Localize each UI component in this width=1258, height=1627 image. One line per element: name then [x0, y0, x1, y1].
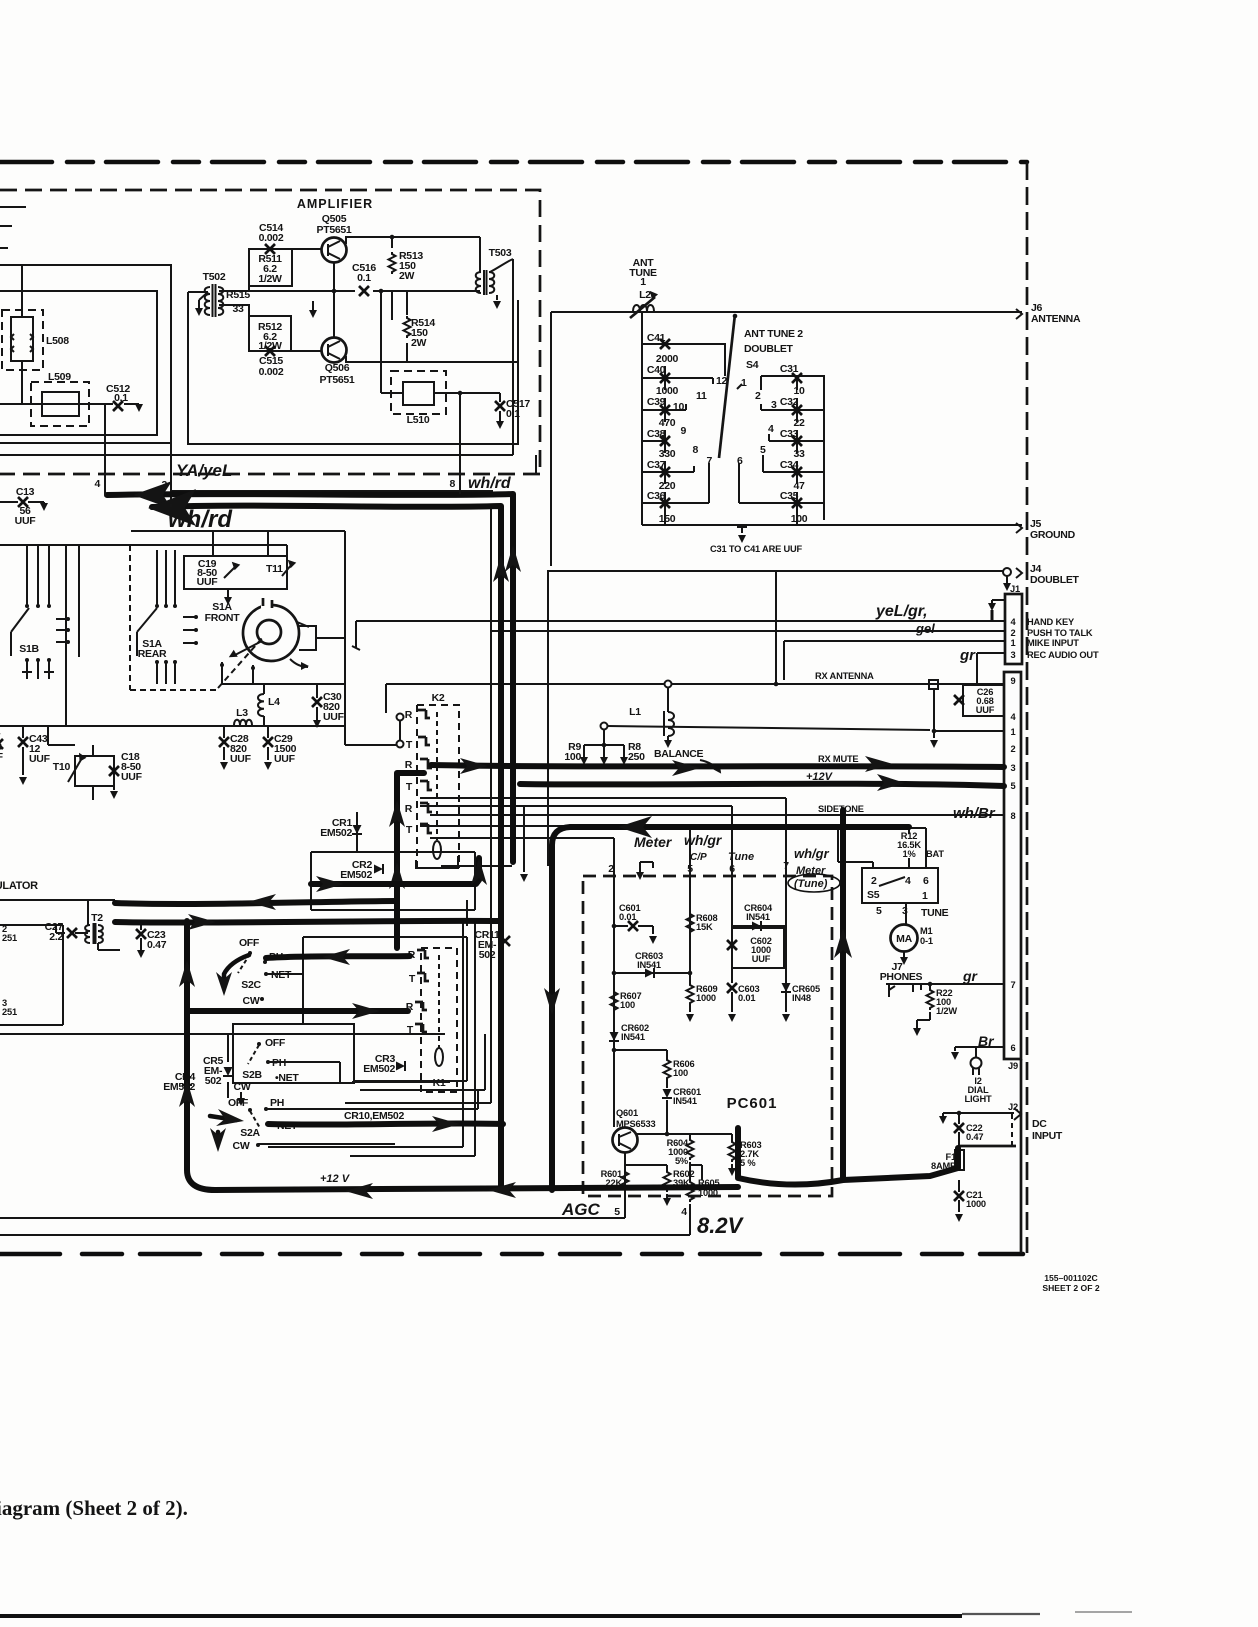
- svg-text:wh/rd: wh/rd: [468, 475, 512, 492]
- svg-text:502: 502: [479, 949, 496, 961]
- svg-text:L510: L510: [407, 414, 430, 426]
- wire L509 line: [0, 403, 139, 405]
- svg-text:T: T: [406, 781, 413, 793]
- svg-text:8: 8: [449, 478, 455, 490]
- mid arrow: [312, 301, 314, 312]
- K2 to L1 wire: [386, 683, 664, 685]
- svg-text:7: 7: [706, 455, 712, 467]
- resistor R604: [687, 1138, 694, 1160]
- svg-text:S4: S4: [746, 359, 759, 371]
- ground arrow T502: [199, 292, 208, 300]
- resistor R514: [406, 291, 408, 362]
- svg-text:1/2W: 1/2W: [258, 273, 282, 285]
- svg-text:S2C: S2C: [241, 979, 261, 991]
- thick arm hook S2A: [210, 1116, 236, 1120]
- svg-text:T: T: [406, 824, 413, 836]
- lamp I2: [971, 1058, 982, 1069]
- inductor L2: [633, 305, 654, 311]
- pin4 pin3 to thick: [105, 493, 171, 507]
- svg-text:AMPLIFIER: AMPLIFIER: [297, 197, 373, 211]
- capacitor C28: [223, 726, 225, 738]
- svg-text:C32: C32: [780, 396, 799, 408]
- svg-text:4: 4: [768, 423, 774, 435]
- svg-text:Tune: Tune: [728, 851, 754, 863]
- svg-text:CW: CW: [233, 1140, 250, 1152]
- svg-text:6: 6: [923, 875, 929, 887]
- base rail: [333, 262, 335, 338]
- wire y900: [0, 899, 115, 901]
- svg-text:5 %: 5 %: [740, 1158, 756, 1168]
- thick arrows up on verticals: [505, 545, 521, 572]
- svg-text:SHEET 2 OF 2: SHEET 2 OF 2: [1042, 1283, 1100, 1293]
- AGC wire: [0, 1217, 625, 1219]
- wire 8 down to thick: [459, 490, 461, 494]
- ground arrow bank: [737, 525, 747, 533]
- resistor R608: [689, 876, 691, 983]
- svg-text:CR10,EM502: CR10,EM502: [344, 1110, 404, 1122]
- mid rail with C516: [219, 290, 480, 292]
- svg-text:2: 2: [871, 875, 877, 887]
- svg-text:S2B: S2B: [242, 1069, 262, 1081]
- svg-text:TUNE: TUNE: [921, 907, 949, 919]
- svg-text:1/2W: 1/2W: [936, 1006, 957, 1016]
- balance network: [601, 723, 608, 730]
- svg-text:2: 2: [1011, 628, 1016, 638]
- svg-text:Q601: Q601: [616, 1108, 638, 1118]
- amplifier solid box: [188, 292, 518, 444]
- wire j4 drop: [775, 571, 777, 684]
- svg-text:C31: C31: [780, 363, 799, 375]
- svg-text:0.47: 0.47: [147, 939, 167, 951]
- capacitor C30: [316, 684, 318, 698]
- thick T2 wires: [115, 901, 396, 904]
- svg-text:0.01: 0.01: [619, 912, 636, 922]
- long vertical x548: [547, 571, 549, 866]
- solid box around K1: [352, 900, 467, 1082]
- capacitor C603: [727, 983, 737, 993]
- svg-text:502: 502: [205, 1075, 222, 1087]
- svg-text:2W: 2W: [399, 270, 415, 282]
- inductor L508: [2, 310, 43, 370]
- connector J4: [547, 568, 1022, 578]
- svg-text:L1: L1: [629, 706, 641, 718]
- svg-text:iagram (Sheet 2 of 2).: iagram (Sheet 2 of 2).: [0, 1496, 188, 1520]
- lower contacts under rotary: [222, 662, 253, 684]
- page bottom rule: [0, 1614, 962, 1618]
- svg-text:R: R: [405, 759, 413, 771]
- emitter rail: [346, 356, 518, 362]
- svg-text:4: 4: [94, 478, 100, 490]
- switch S5 box: [862, 868, 938, 903]
- wire y1034: [0, 1033, 445, 1035]
- svg-text:OFF: OFF: [228, 1097, 249, 1109]
- svg-text:150: 150: [659, 513, 676, 525]
- wire bottom: [0, 454, 513, 456]
- svg-text:C13: C13: [16, 486, 35, 498]
- svg-text:MIKE INPUT: MIKE INPUT: [1027, 638, 1079, 648]
- phone jack J7: [886, 984, 930, 997]
- K2 coil bracket: [416, 856, 458, 868]
- svg-text:3: 3: [1011, 650, 1016, 660]
- svg-text:8: 8: [1011, 811, 1016, 821]
- svg-text:UUF: UUF: [230, 753, 252, 765]
- switch S1A REAR: [130, 545, 216, 690]
- svg-text:0.1: 0.1: [506, 408, 520, 420]
- capacitor bank right C31-C35: [761, 376, 824, 520]
- svg-text:0.002: 0.002: [259, 232, 284, 244]
- thick NET CR10 wire: [268, 1123, 503, 1124]
- capacitor C27: [67, 928, 77, 938]
- relay K1: [421, 948, 457, 1092]
- left edge fragments: [0, 207, 26, 248]
- svg-text:S2A: S2A: [240, 1127, 260, 1139]
- svg-text:PT5651: PT5651: [320, 374, 355, 386]
- capacitor C29: [267, 726, 269, 738]
- svg-text:AGC: AGC: [561, 1200, 601, 1219]
- svg-text:11: 11: [696, 390, 707, 402]
- svg-text:wh/gr: wh/gr: [684, 832, 723, 848]
- svg-text:(Tune): (Tune): [794, 878, 828, 890]
- resistor R22: [929, 984, 931, 988]
- svg-text:15K: 15K: [696, 922, 713, 932]
- svg-text:DC: DC: [1032, 1118, 1047, 1130]
- svg-text:UUF: UUF: [976, 705, 995, 715]
- svg-text:gr: gr: [959, 647, 976, 664]
- svg-text:UUF: UUF: [121, 771, 143, 783]
- svg-text:5: 5: [760, 444, 766, 456]
- thick wire wh/rd upper: [107, 494, 513, 862]
- wires T502 right: [219, 291, 249, 351]
- meter M1: [891, 925, 918, 952]
- capacitor C26 box: [963, 685, 1004, 716]
- svg-text:155–001102C: 155–001102C: [1044, 1273, 1098, 1283]
- svg-text:DOUBLET: DOUBLET: [1030, 574, 1080, 586]
- svg-text:0.1: 0.1: [357, 272, 371, 284]
- svg-text:5%: 5%: [675, 1156, 689, 1166]
- mike input wire: [784, 641, 1005, 680]
- wire top of S1 section: [0, 545, 287, 556]
- C19 T11 box: [184, 556, 287, 589]
- svg-text:1: 1: [741, 377, 747, 389]
- svg-text:YA/yeL: YA/yeL: [176, 461, 232, 480]
- svg-text:BALANCE: BALANCE: [654, 748, 704, 760]
- transistor Q506: [322, 338, 347, 363]
- nested corner wires bottom of K2 area: [268, 921, 463, 1147]
- svg-text:0.002: 0.002: [259, 366, 284, 378]
- 8.2V wire: [0, 1234, 690, 1236]
- connector J2 column: [1020, 1059, 1023, 1253]
- svg-text:S5: S5: [867, 889, 880, 901]
- thick +12v wire: [520, 784, 1004, 786]
- svg-text:PUSH TO TALK: PUSH TO TALK: [1027, 628, 1093, 638]
- svg-text:IN541: IN541: [637, 960, 661, 970]
- svg-text:Q506: Q506: [325, 362, 350, 374]
- push to talk wire: [491, 630, 1005, 632]
- svg-text:+12 V: +12 V: [320, 1173, 351, 1185]
- svg-text:OFF: OFF: [239, 937, 260, 949]
- svg-text:1000: 1000: [696, 993, 716, 1003]
- svg-text:T503: T503: [489, 247, 512, 259]
- svg-text:33: 33: [232, 303, 244, 315]
- svg-text:L508: L508: [46, 335, 69, 347]
- svg-text:RX ANTENNA: RX ANTENNA: [815, 671, 874, 681]
- svg-text:gr: gr: [962, 968, 979, 984]
- svg-text:IN541: IN541: [746, 912, 770, 922]
- svg-text:UUF: UUF: [274, 753, 296, 765]
- svg-text:3: 3: [771, 399, 777, 411]
- node pin3 wire: [170, 443, 172, 504]
- resistor R607: [611, 990, 618, 1012]
- svg-text:S1B: S1B: [19, 643, 39, 655]
- thick y1011 wire: [187, 1008, 408, 1014]
- svg-text:PT5651: PT5651: [317, 224, 352, 236]
- MAIN SCHEMATIC GROUP: [0, 162, 1027, 1254]
- antenna line with L2: [551, 311, 1022, 313]
- svg-text:T10: T10: [53, 761, 71, 773]
- svg-text:•NET: •NET: [275, 1072, 299, 1084]
- resistor R513: [389, 252, 396, 274]
- emitter wire: [624, 1153, 626, 1208]
- svg-text:Br: Br: [978, 1033, 995, 1049]
- svg-text:PH: PH: [270, 1097, 284, 1109]
- wire to J2: [959, 1145, 1016, 1148]
- thick arm hook S2C: [224, 955, 249, 984]
- svg-text:4: 4: [905, 875, 911, 887]
- resistor R602: [625, 1165, 667, 1170]
- svg-text:10: 10: [673, 401, 685, 413]
- svg-text:8.2V: 8.2V: [697, 1213, 745, 1238]
- svg-text:1: 1: [1011, 727, 1016, 737]
- svg-text:MA: MA: [896, 933, 912, 945]
- svg-text:1: 1: [640, 276, 646, 288]
- nested feed wires: [420, 797, 786, 799]
- wire with down arrow x524: [523, 806, 525, 872]
- svg-text:EM502: EM502: [363, 1063, 395, 1075]
- collector top rail: [346, 237, 480, 248]
- svg-text:wh/rd: wh/rd: [168, 506, 233, 533]
- K2 coil: [433, 841, 441, 859]
- svg-text:T: T: [407, 1024, 414, 1036]
- svg-text:ANT TUNE 2: ANT TUNE 2: [744, 328, 803, 340]
- svg-text:UUF: UUF: [752, 954, 771, 964]
- svg-text:M1: M1: [920, 926, 933, 936]
- svg-text:L4: L4: [268, 696, 280, 708]
- capacitor C602 box: [732, 928, 784, 968]
- svg-text:HAND KEY: HAND KEY: [1027, 617, 1075, 627]
- capacitor C21: [958, 1180, 960, 1192]
- switch S2B box: [233, 1024, 354, 1083]
- wire pin7: [930, 983, 1004, 985]
- svg-text:100: 100: [620, 1000, 635, 1010]
- svg-text:T2: T2: [91, 912, 103, 924]
- thick fragment near J1: [991, 610, 994, 621]
- svg-text:T11: T11: [266, 563, 283, 575]
- capacitor C43: [22, 726, 24, 738]
- L3 wire: [0, 725, 345, 727]
- svg-text:PC601: PC601: [727, 1095, 778, 1112]
- svg-text:RX MUTE: RX MUTE: [818, 754, 858, 764]
- svg-text:+12V: +12V: [806, 771, 834, 783]
- svg-text:0.47: 0.47: [966, 1132, 983, 1142]
- svg-text:C31 TO C41 ARE UUF: C31 TO C41 ARE UUF: [710, 544, 802, 554]
- svg-text:2: 2: [1011, 744, 1016, 754]
- svg-text:wh/Br: wh/Br: [953, 805, 996, 822]
- switch S1B: [27, 545, 49, 606]
- svg-text:0-1: 0-1: [920, 936, 933, 946]
- connector J5: [1016, 523, 1022, 533]
- svg-text:EM502: EM502: [320, 827, 352, 839]
- left cut box: [0, 925, 65, 1025]
- rec audio wire: [977, 653, 1005, 685]
- inner solid box: [0, 291, 157, 435]
- svg-text:J9: J9: [1008, 1061, 1018, 1071]
- svg-text:MODULATOR: MODULATOR: [0, 880, 38, 892]
- svg-text:4: 4: [681, 1206, 687, 1218]
- svg-text:IN541: IN541: [621, 1032, 645, 1042]
- wire pin6 lamp: [955, 1047, 1004, 1057]
- connector J6: [1016, 309, 1022, 319]
- svg-text:PHONES: PHONES: [880, 971, 923, 983]
- resistor R601: [622, 1170, 629, 1192]
- connector J9 long: [1004, 672, 1021, 1059]
- dc input wires: [943, 1113, 1014, 1116]
- S1A section box: [131, 531, 345, 745]
- thick left vertical and +12V bottom: [187, 921, 738, 1190]
- rx antenna wire pin9: [672, 683, 1004, 685]
- svg-text:REAR: REAR: [138, 648, 167, 660]
- svg-text:INPUT: INPUT: [1032, 1130, 1063, 1142]
- outer dashed border top: [0, 160, 1027, 165]
- inductor L510: [391, 371, 446, 414]
- amplifier dashed box: [0, 190, 540, 474]
- svg-text:DOUBLET: DOUBLET: [744, 343, 794, 355]
- svg-text:ANTENNA: ANTENNA: [1031, 313, 1081, 325]
- svg-text:CW: CW: [234, 1081, 251, 1093]
- svg-text:100: 100: [673, 1068, 688, 1078]
- svg-text:J1: J1: [1010, 584, 1020, 594]
- capacitor C517: [499, 393, 501, 402]
- svg-text:BAT: BAT: [926, 849, 944, 859]
- svg-text:100: 100: [791, 513, 808, 525]
- svg-text:FRONT: FRONT: [205, 612, 241, 624]
- svg-text:Meter: Meter: [634, 834, 673, 850]
- resistor R512 box: [249, 316, 291, 351]
- svg-text:EM502: EM502: [340, 869, 372, 881]
- capacitor C515: [265, 346, 275, 356]
- thick rx mute wire: [431, 765, 1004, 767]
- thick meter column right: [738, 1128, 958, 1185]
- svg-text:5: 5: [876, 905, 882, 917]
- svg-text:1%: 1%: [902, 849, 916, 859]
- svg-text:1: 1: [1011, 638, 1016, 648]
- capacitor C23: [140, 921, 142, 930]
- diode CR601: [666, 1080, 668, 1134]
- svg-text:CW: CW: [243, 995, 260, 1007]
- bank bottom line to J5: [642, 515, 1022, 525]
- node pin4 wire: [104, 404, 106, 493]
- capacitor bank left C36-C41: [642, 312, 725, 525]
- svg-text:T: T: [409, 973, 416, 985]
- svg-text:UUF: UUF: [29, 753, 51, 765]
- svg-text:9: 9: [680, 425, 686, 437]
- svg-text:L3: L3: [236, 707, 248, 719]
- svg-text:EM502: EM502: [163, 1081, 195, 1093]
- svg-text:3: 3: [1011, 763, 1016, 773]
- svg-text:L2: L2: [639, 289, 651, 301]
- svg-text:1000: 1000: [966, 1199, 986, 1209]
- long vertical x491: [345, 506, 491, 1103]
- svg-text:6: 6: [737, 455, 743, 467]
- svg-text:2W: 2W: [411, 337, 427, 349]
- svg-text:wh/gr: wh/gr: [794, 846, 830, 861]
- svg-text:gel: gel: [915, 621, 935, 636]
- svg-text:5: 5: [1011, 781, 1016, 791]
- resistor R606: [614, 1050, 667, 1058]
- resistor R605: [690, 1162, 702, 1180]
- PC601 dashed board box: [583, 876, 832, 1196]
- svg-text:UUF: UUF: [323, 711, 345, 723]
- thick meter loop left of PC601: [552, 827, 909, 1190]
- resistor R511 box: [249, 249, 292, 286]
- wire to L510: [381, 291, 392, 393]
- wire pin8: [459, 393, 461, 490]
- svg-text:R: R: [405, 803, 413, 815]
- svg-text:R: R: [405, 709, 413, 721]
- resistor R603: [731, 1134, 733, 1140]
- diode CR2 and box: [311, 852, 475, 910]
- svg-text:5: 5: [614, 1206, 620, 1218]
- outer dashed border bottom: [0, 1252, 1023, 1257]
- svg-text:REC AUDIO OUT: REC AUDIO OUT: [1027, 650, 1099, 660]
- svg-text:LIGHT: LIGHT: [965, 1094, 992, 1104]
- svg-text:UUF: UUF: [197, 576, 219, 588]
- svg-text:251: 251: [2, 1007, 17, 1017]
- hand key wire: [356, 620, 1005, 622]
- svg-text:GROUND: GROUND: [1030, 529, 1076, 541]
- thick K2 T drop: [397, 773, 424, 948]
- svg-text:100: 100: [564, 751, 581, 763]
- outer dashed border right: [1026, 162, 1029, 1253]
- switch arm S4: [719, 314, 735, 458]
- resistor R609: [687, 983, 694, 1005]
- svg-text:UUF: UUF: [15, 515, 37, 527]
- svg-text:C/P: C/P: [690, 852, 707, 863]
- svg-text:OFF: OFF: [265, 1037, 286, 1049]
- rotary switch S1A: [243, 605, 299, 661]
- svg-text:251: 251: [2, 933, 17, 943]
- thick PH S2C wire: [266, 956, 410, 958]
- svg-text:1: 1: [922, 890, 928, 902]
- bank taps and numbers: [663, 378, 713, 441]
- svg-text:T: T: [406, 739, 413, 751]
- svg-text:8: 8: [692, 444, 698, 456]
- diode CR605: [781, 983, 791, 992]
- svg-text:250: 250: [628, 751, 645, 763]
- svg-text:0.01: 0.01: [738, 993, 755, 1003]
- thick wire y883: [311, 858, 479, 884]
- ant tune box left edge: [550, 312, 552, 566]
- svg-text:yeL/gr,: yeL/gr,: [875, 603, 928, 620]
- contact square: [929, 680, 938, 689]
- svg-text:T502: T502: [203, 271, 226, 283]
- svg-text:IN541: IN541: [673, 1096, 697, 1106]
- svg-text:6: 6: [1011, 1043, 1016, 1053]
- svg-text:2: 2: [755, 390, 761, 402]
- svg-text:IN48: IN48: [792, 993, 811, 1003]
- svg-text:9: 9: [1011, 676, 1016, 686]
- L508 outer solid box: [0, 265, 171, 443]
- svg-text:7: 7: [1011, 980, 1016, 990]
